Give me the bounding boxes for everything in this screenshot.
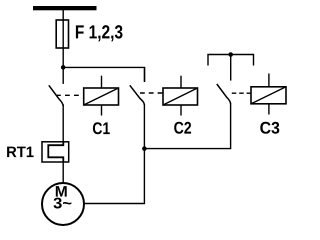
- junction node A (fuse output): [61, 65, 66, 70]
- contactor C3 coil box: [251, 74, 286, 115]
- contactor C2 coil box: [163, 76, 198, 116]
- wire motor to C2/C3 return: [84, 149, 144, 204]
- wire busbar to contact C1 top: [62, 10, 64, 84]
- mechanical link C2 (dashed): [140, 92, 163, 94]
- junction node B: [142, 146, 147, 151]
- wire RT1 to motor: [62, 162, 64, 184]
- thermal relay RT1: [42, 141, 69, 163]
- fuse F1,2,3: [56, 20, 68, 48]
- wire C1 contact to RT1: [62, 105, 64, 143]
- wire node C to C3 contact: [230, 55, 232, 81]
- wire junction B to C3 contact bottom: [144, 104, 230, 149]
- label RT1: [7, 147, 33, 158]
- contactor C1 coil box: [84, 76, 119, 116]
- label C2: [174, 122, 191, 134]
- label 3~: [54, 198, 72, 209]
- motor M 3~: [42, 183, 84, 225]
- supply stub T (top right): [208, 55, 254, 66]
- mechanical link C1 (dashed): [56, 94, 84, 96]
- mechanical link C3 (dashed): [232, 92, 251, 94]
- contactor C2 main contact: [130, 67, 145, 148]
- label C1: [93, 122, 110, 134]
- contactor C3 main contact: [217, 84, 231, 104]
- label C3: [260, 122, 279, 134]
- label M: [56, 186, 67, 197]
- label F 1,2,3: [76, 25, 123, 41]
- junction node C (top right): [228, 52, 233, 57]
- busbar supply line: [33, 6, 97, 10]
- wire branch junction to C2 contact top: [63, 67, 144, 82]
- contactor C1 main contact: [49, 85, 63, 106]
